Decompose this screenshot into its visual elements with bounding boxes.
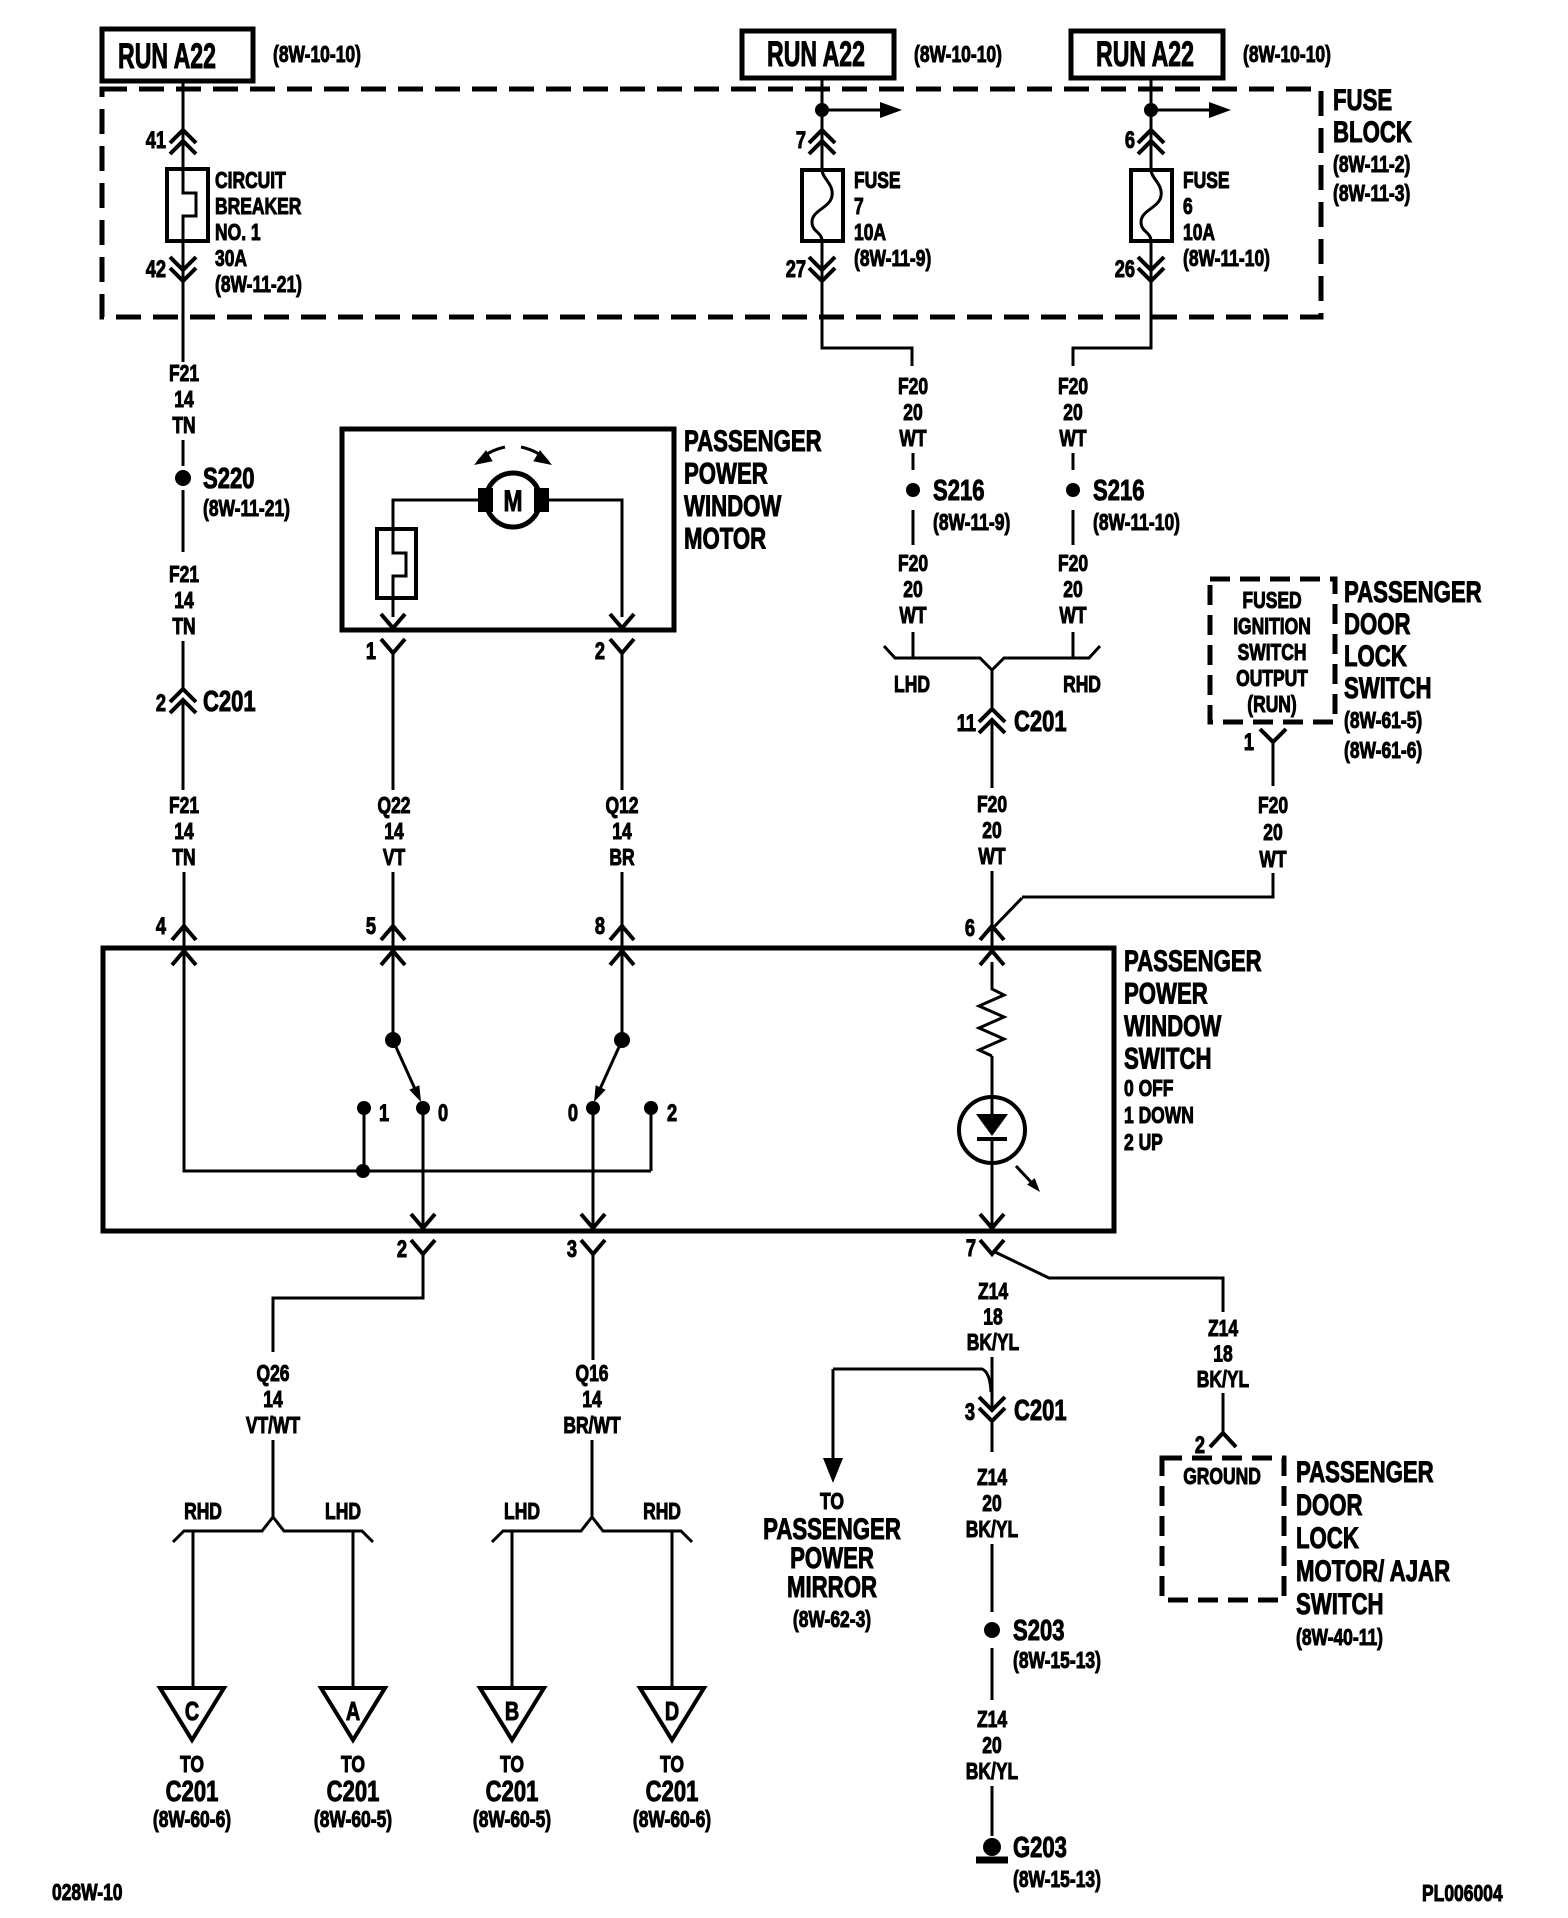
svg-text:7: 7 [796, 127, 806, 154]
fuse block label FUSE BLOCK (8W-11-2) (8W-11-3) [1333, 83, 1412, 207]
svg-text:14: 14 [174, 589, 194, 614]
svg-text:2: 2 [397, 1236, 407, 1263]
wire above ground box pin 2 [1222, 1393, 1225, 1432]
svg-text:20: 20 [903, 578, 922, 603]
svg-text:8: 8 [595, 913, 605, 940]
wire LHD branch to connector A [352, 1531, 355, 1688]
svg-text:27: 27 [786, 256, 806, 283]
svg-text:TN: TN [172, 414, 195, 439]
fuse 7 label [854, 169, 931, 272]
svg-text:BK/YL: BK/YL [966, 1518, 1018, 1543]
svg-text:3: 3 [567, 1236, 577, 1263]
TO label (C) [180, 1753, 204, 1778]
wire from fuse 6 down and left [1073, 241, 1151, 366]
wire label Q22 14 VT [377, 794, 410, 871]
connector triangle D [640, 1688, 704, 1740]
wire Q26 to split [272, 1440, 275, 1517]
wire RHD branch to connector C [192, 1531, 195, 1688]
svg-text:(8W-15-13): (8W-15-13) [1013, 1868, 1101, 1893]
svg-text:RHD: RHD [643, 1500, 681, 1525]
wire label F20 20 WT (fuse6 upper) [1058, 375, 1088, 452]
circuit breaker no. 1 [167, 169, 208, 241]
arrow to passenger power mirror [823, 1369, 843, 1483]
svg-text:BREAKER: BREAKER [215, 195, 302, 220]
svg-text:14: 14 [263, 1388, 283, 1413]
svg-text:11: 11 [957, 710, 976, 737]
svg-text:6: 6 [1125, 127, 1135, 154]
wire label F20 20 WT (fuse6 lower) [1058, 552, 1088, 629]
connector C201 pin 11 (chevrons) [979, 709, 1005, 733]
wire from fuse 7 down and right [822, 241, 912, 366]
svg-text:C201: C201 [1014, 1395, 1067, 1427]
svg-text:1: 1 [1244, 729, 1254, 756]
contact 1 (down) [357, 1101, 371, 1115]
svg-text:10A: 10A [1183, 221, 1215, 246]
svg-text:C201: C201 [203, 686, 256, 718]
svg-text:DOOR: DOOR [1296, 1488, 1363, 1522]
ground box pin 2 (inverted Y) [1210, 1433, 1236, 1447]
svg-text:F20: F20 [898, 375, 928, 400]
wire from RUN A22 #1 into fuse block [182, 81, 185, 169]
wire from door lock switch down/left to pin 6 [1022, 873, 1273, 897]
svg-text:MIRROR: MIRROR [787, 1570, 877, 1604]
svg-text:6: 6 [965, 915, 975, 942]
svg-text:D: D [665, 1696, 679, 1725]
wire label Q12 14 BR [605, 794, 638, 871]
svg-text:F20: F20 [1258, 794, 1288, 819]
ground G203 symbol [976, 1838, 1008, 1860]
svg-text:BK/YL: BK/YL [966, 1760, 1018, 1785]
svg-text:10A: 10A [854, 221, 886, 246]
wire F21 segment below C201 [182, 701, 185, 790]
passenger power window motor (box) [342, 429, 674, 630]
svg-text:2: 2 [595, 638, 605, 665]
svg-text:(8W-11-3): (8W-11-3) [1333, 182, 1410, 207]
svg-text:SWITCH: SWITCH [1344, 671, 1432, 705]
svg-text:(8W-61-6): (8W-61-6) [1344, 739, 1422, 764]
svg-text:(8W-11-21): (8W-11-21) [215, 273, 302, 298]
wire label Q16 14 BR/WT [563, 1362, 621, 1439]
svg-text:F21: F21 [169, 794, 199, 819]
svg-text:(8W-61-5): (8W-61-5) [1344, 709, 1422, 734]
wire contact 0 to pin 2 with arrowhead [411, 1108, 435, 1228]
svg-text:CIRCUIT: CIRCUIT [215, 169, 286, 194]
switch pin 2 (edge chevrons) [411, 1240, 435, 1254]
wire motor pin 2 down [621, 653, 624, 790]
svg-text:(8W-60-6): (8W-60-6) [633, 1808, 711, 1833]
svg-text:FUSE: FUSE [854, 169, 901, 194]
wire F21 segment [182, 440, 185, 466]
switch arm 1 (down switch) [385, 1032, 421, 1102]
TO label (A) [341, 1753, 365, 1778]
svg-text:F20: F20 [1058, 552, 1088, 577]
svg-text:Q22: Q22 [377, 794, 410, 819]
svg-text:028W-10: 028W-10 [52, 1881, 123, 1906]
svg-text:DOOR: DOOR [1344, 607, 1411, 641]
wire below circuit breaker [182, 241, 185, 362]
svg-text:30A: 30A [215, 247, 247, 272]
svg-text:MOTOR: MOTOR [684, 521, 766, 555]
node junction at fuse 7 feed [815, 103, 829, 117]
splice S220 [175, 470, 191, 486]
svg-text:LOCK: LOCK [1296, 1521, 1359, 1555]
svg-text:G203: G203 [1013, 1832, 1067, 1864]
svg-text:TO: TO [660, 1753, 684, 1778]
wire below S203 [991, 1648, 994, 1700]
svg-text:SWITCH: SWITCH [1296, 1587, 1384, 1621]
passenger power window motor title [684, 424, 822, 556]
svg-text:LHD: LHD [504, 1500, 540, 1525]
svg-text:MOTOR/ AJAR: MOTOR/ AJAR [1296, 1554, 1450, 1588]
svg-text:BLOCK: BLOCK [1333, 115, 1412, 149]
connector pin 42 (chevrons) [170, 257, 196, 281]
wire contact 1 to common rail [363, 1108, 366, 1171]
svg-text:PASSENGER: PASSENGER [1296, 1455, 1434, 1489]
svg-text:VT: VT [383, 846, 406, 871]
motor M1 (circle + terminals) [478, 473, 549, 527]
wire F21 into switch pin 4 [183, 872, 186, 948]
wire label F21 14 TN (lower) [169, 794, 199, 871]
svg-text:(8W-11-9): (8W-11-9) [933, 511, 1010, 536]
wire resistor to LED [991, 1056, 994, 1114]
splice S216 #1 [906, 483, 920, 497]
LHD/RHD merge bracket [884, 646, 1100, 670]
wire pin 4 to common rail [184, 948, 651, 1171]
wire above S203 [991, 1544, 994, 1612]
wire from RUN A22 #3 to fuse 6 [1150, 78, 1153, 170]
svg-text:(8W-11-9): (8W-11-9) [854, 247, 931, 272]
wire pin 3 down [592, 1254, 595, 1360]
svg-text:BR/WT: BR/WT [563, 1414, 621, 1439]
wire from motor left terminal [393, 500, 478, 529]
connector pin 6 (chevrons, fuse block) [1138, 130, 1164, 154]
switch pin 3 (edge chevrons) [581, 1240, 605, 1254]
switch pin 7 (edge chevrons) [980, 1240, 1004, 1254]
svg-text:TN: TN [172, 615, 195, 640]
fuse 6 label [1183, 169, 1270, 272]
svg-text:14: 14 [582, 1388, 602, 1413]
svg-text:4: 4 [156, 913, 166, 940]
svg-text:BR: BR [609, 846, 634, 871]
svg-text:RUN A22: RUN A22 [1096, 35, 1194, 74]
wire pin 2 down-left [273, 1254, 423, 1352]
svg-text:RHD: RHD [1063, 673, 1101, 698]
wire pin 5 to switch arm 1 pivot [392, 948, 395, 1036]
fuse block (dashed box) [102, 89, 1321, 317]
motor pin 1 (edge chevrons) [381, 614, 405, 653]
svg-text:WT: WT [978, 845, 1006, 870]
wire below C201 pin 11 [991, 721, 994, 788]
svg-text:LHD: LHD [894, 673, 930, 698]
svg-text:(8W-40-11): (8W-40-11) [1296, 1626, 1383, 1651]
wire from merge to C201 pin 11 [991, 670, 994, 710]
svg-text:S216: S216 [1093, 475, 1144, 507]
svg-text:20: 20 [903, 401, 922, 426]
RHD/LHD split bracket (left) [173, 1517, 373, 1542]
svg-text:GROUND: GROUND [1183, 1465, 1261, 1490]
svg-text:PASSENGER: PASSENGER [684, 424, 822, 458]
switch pin 8 (edge chevrons) [610, 926, 634, 965]
connector box RUN A22 #1 [102, 29, 253, 81]
arrow to other circuits (right) from fuse 6 node [1151, 102, 1231, 118]
arrow to other circuits (right) from fuse 7 node [822, 102, 902, 118]
svg-text:POWER: POWER [684, 456, 768, 490]
wire RHD branch to connector D [671, 1531, 674, 1688]
svg-text:20: 20 [982, 1492, 1001, 1517]
connector triangle B [480, 1688, 544, 1740]
passenger door lock switch (dashed box) [1210, 579, 1335, 722]
svg-text:Q16: Q16 [575, 1362, 608, 1387]
svg-text:0 OFF: 0 OFF [1124, 1077, 1173, 1102]
connector pin 7 (chevrons) [809, 130, 835, 154]
svg-text:3: 3 [965, 1399, 975, 1426]
passenger power window switch (box) [103, 948, 1114, 1231]
svg-text:20: 20 [1263, 821, 1282, 846]
svg-text:S220: S220 [203, 463, 254, 495]
wire segment into LHD branch [912, 632, 915, 658]
wire segment above S216 #1 [912, 453, 915, 470]
svg-text:WINDOW: WINDOW [684, 489, 781, 523]
svg-text:Z14: Z14 [978, 1280, 1009, 1305]
svg-text:14: 14 [612, 820, 632, 845]
svg-text:WT: WT [899, 427, 927, 452]
svg-text:C201: C201 [166, 1776, 219, 1808]
wire to ground G203 [991, 1786, 994, 1836]
svg-text:LHD: LHD [325, 1500, 361, 1525]
svg-text:(8W-60-6): (8W-60-6) [153, 1808, 231, 1833]
svg-text:F21: F21 [169, 563, 199, 588]
svg-text:(8W-11-21): (8W-11-21) [203, 497, 290, 522]
svg-text:2: 2 [1195, 1432, 1205, 1459]
svg-text:(8W-10-10): (8W-10-10) [914, 43, 1002, 68]
svg-text:FUSE: FUSE [1183, 169, 1230, 194]
svg-text:BK/YL: BK/YL [967, 1331, 1019, 1356]
junction dot on common rail [356, 1164, 370, 1178]
svg-text:C201: C201 [486, 1776, 539, 1808]
wire label F21 14 TN (upper) [169, 362, 199, 439]
svg-text:WINDOW: WINDOW [1124, 1009, 1221, 1043]
switch pin 6 (edge chevrons) [980, 926, 1004, 965]
to passenger power mirror label [763, 1512, 901, 1633]
svg-text:18: 18 [983, 1305, 1002, 1330]
svg-text:F20: F20 [1058, 375, 1088, 400]
svg-text:NO. 1: NO. 1 [215, 221, 261, 246]
svg-text:Q12: Q12 [605, 794, 638, 819]
svg-text:7: 7 [854, 195, 864, 220]
splice S203 [984, 1622, 1000, 1638]
svg-text:2: 2 [667, 1100, 677, 1127]
svg-text:42: 42 [146, 256, 166, 283]
wire from breaker to motor pin 1 [392, 598, 395, 617]
svg-text:S203: S203 [1013, 1615, 1064, 1647]
wire pin 8 to switch arm 2 pivot [621, 948, 624, 1036]
svg-text:PL006004: PL006004 [1422, 1882, 1503, 1907]
wire contact 2 to common rail [650, 1108, 653, 1171]
svg-text:2 UP: 2 UP [1124, 1131, 1163, 1156]
wire F21 segment above C201 [182, 641, 185, 690]
svg-text:(8W-10-10): (8W-10-10) [273, 43, 361, 68]
svg-text:(8W-11-2): (8W-11-2) [1333, 153, 1410, 178]
motor pin 2 (edge chevrons) [610, 614, 634, 653]
connector triangle C [160, 1688, 224, 1740]
wire segment below S216 #2 [1072, 510, 1075, 545]
svg-text:OUTPUT: OUTPUT [1236, 667, 1308, 692]
TO label (D) [660, 1753, 684, 1778]
switch pin 4 (edge chevrons) [172, 926, 196, 965]
connector pin 26 (chevrons) [1138, 257, 1164, 281]
wire label F20 20 WT (fuse7 lower) [898, 552, 928, 629]
switch arm 2 (up switch) [594, 1032, 630, 1102]
door lock switch pin 1 (Y connector) [1260, 729, 1286, 742]
contact 0 (arm 1 off) [416, 1101, 430, 1115]
switch pin 5 (edge chevrons) [381, 926, 405, 965]
wire contact 0 to pin 3 with arrowhead [581, 1108, 605, 1228]
svg-text:1: 1 [366, 638, 376, 665]
svg-text:14: 14 [174, 820, 194, 845]
svg-text:(8W-11-10): (8W-11-10) [1183, 247, 1270, 272]
svg-text:(8W-60-5): (8W-60-5) [314, 1808, 392, 1833]
wire segment below S216 #1 [912, 510, 915, 545]
connector box RUN A22 #2 [742, 31, 894, 78]
svg-text:RUN A22: RUN A22 [118, 37, 216, 76]
connector triangle A [321, 1688, 385, 1740]
wire from door lock switch joining pin 6 (diagonal) [992, 898, 1022, 929]
wire into switch pin 6 [991, 871, 994, 948]
circuit breaker no.1 label [215, 169, 302, 298]
svg-text:B: B [505, 1696, 519, 1725]
svg-text:F21: F21 [169, 362, 199, 387]
passenger door lock motor/ajar switch ground (dashed box) [1162, 1458, 1284, 1600]
svg-text:(8W-10-10): (8W-10-10) [1243, 43, 1331, 68]
svg-text:0: 0 [438, 1100, 448, 1127]
svg-text:SWITCH: SWITCH [1238, 641, 1307, 666]
svg-text:VT/WT: VT/WT [246, 1414, 301, 1439]
resistor (illumination) [979, 962, 1004, 1056]
wire label Z14 18 BK/YL (right) [1197, 1317, 1249, 1393]
svg-text:20: 20 [982, 819, 1001, 844]
svg-text:C201: C201 [646, 1776, 699, 1808]
svg-text:Z14: Z14 [1208, 1317, 1239, 1342]
svg-text:C201: C201 [1014, 706, 1067, 738]
wire Q12 into switch pin 8 [621, 872, 624, 948]
svg-text:TO: TO [500, 1753, 524, 1778]
wire LED to pin 7 with arrowhead [980, 1139, 1004, 1228]
svg-text:WT: WT [1059, 604, 1087, 629]
LED (illumination lamp) [959, 1097, 1025, 1163]
svg-text:BK/YL: BK/YL [1197, 1368, 1249, 1393]
wire label Z14 18 BK/YL (left) [967, 1280, 1019, 1356]
contact 0 (arm 2 off) [586, 1101, 600, 1115]
motor circuit breaker (internal) [377, 529, 416, 598]
wire label Z14 20 BK/YL (lower) [966, 1708, 1018, 1785]
wire label Z14 20 BK/YL (upper) [966, 1466, 1018, 1543]
svg-text:WT: WT [899, 604, 927, 629]
wire motor pin 1 down [392, 653, 395, 790]
svg-text:C201: C201 [327, 1776, 380, 1808]
svg-text:1: 1 [379, 1100, 389, 1127]
svg-text:SWITCH: SWITCH [1124, 1041, 1212, 1075]
connector box RUN A22 #3 [1071, 31, 1223, 78]
contact 2 (up) [644, 1101, 658, 1115]
wire below door lock pin 1 [1272, 742, 1275, 786]
svg-text:TO: TO [341, 1753, 365, 1778]
wire Q16 to split [591, 1440, 594, 1517]
TO label (mirror) [820, 1490, 844, 1515]
wire from motor right terminal [549, 500, 622, 617]
wire label F21 14 TN (middle) [169, 563, 199, 640]
node junction at fuse 6 feed [1144, 103, 1158, 117]
svg-text:F20: F20 [898, 552, 928, 577]
svg-text:6: 6 [1183, 195, 1193, 220]
fuse 6 [1131, 170, 1172, 241]
svg-text:FUSED: FUSED [1242, 589, 1301, 614]
svg-text:Z14: Z14 [977, 1466, 1008, 1491]
svg-text:5: 5 [366, 913, 376, 940]
svg-text:1 DOWN: 1 DOWN [1124, 1104, 1194, 1129]
svg-text:PASSENGER: PASSENGER [1124, 944, 1262, 978]
svg-text:TO: TO [180, 1753, 204, 1778]
wire segment into RHD branch [1072, 632, 1075, 658]
LHD/RHD split bracket (right) [492, 1517, 692, 1542]
svg-text:LOCK: LOCK [1344, 639, 1407, 673]
wire F21 segment below S220 [182, 490, 185, 552]
svg-text:FUSE: FUSE [1333, 83, 1392, 117]
svg-text:(RUN): (RUN) [1247, 693, 1296, 718]
svg-text:(8W-62-3): (8W-62-3) [793, 1608, 871, 1633]
svg-text:41: 41 [146, 127, 166, 154]
wire segment above C201 pin 3 [991, 1357, 994, 1411]
wire segment above S216 #2 [1072, 453, 1075, 470]
svg-text:18: 18 [1213, 1342, 1232, 1367]
svg-text:WT: WT [1259, 848, 1287, 873]
wire label F20 20 WT (fuse7 upper) [898, 375, 928, 452]
svg-text:Q26: Q26 [256, 1362, 289, 1387]
wire below C201 pin 3 [991, 1421, 994, 1452]
fused ignition switch output (run) label [1233, 589, 1311, 718]
fuse 7 [802, 170, 843, 241]
passenger door lock switch title [1344, 575, 1482, 764]
svg-text:14: 14 [174, 388, 194, 413]
svg-text:A: A [346, 1696, 361, 1725]
wire label F20 20 WT (door lock) [1258, 794, 1288, 873]
splice S216 #2 [1066, 483, 1080, 497]
branch to power mirror (horizontal + hook) [833, 1369, 991, 1392]
wire LHD branch to connector B [511, 1531, 514, 1688]
svg-text:PASSENGER: PASSENGER [1344, 575, 1482, 609]
svg-text:20: 20 [1063, 578, 1082, 603]
svg-text:0: 0 [568, 1100, 578, 1127]
svg-text:M: M [504, 484, 523, 518]
switch title PASSENGER POWER WINDOW SWITCH [1124, 944, 1262, 1156]
svg-text:TN: TN [172, 846, 195, 871]
wire pin 7 diagonal to right branch [995, 1252, 1223, 1312]
svg-text:RHD: RHD [184, 1500, 222, 1525]
wire label Q26 14 VT/WT [246, 1362, 301, 1439]
connector pin 27 (chevrons) [809, 257, 835, 281]
LED light arrow [1016, 1166, 1040, 1192]
svg-text:26: 26 [1115, 256, 1135, 283]
svg-text:(8W-11-10): (8W-11-10) [1093, 511, 1180, 536]
svg-text:F20: F20 [977, 793, 1007, 818]
svg-text:2: 2 [156, 690, 166, 717]
wire label F20 20 WT (above switch) [977, 793, 1007, 870]
svg-text:C: C [185, 1696, 200, 1725]
svg-text:7: 7 [966, 1235, 976, 1262]
svg-text:S216: S216 [933, 475, 984, 507]
passenger door lock motor/ajar switch title [1296, 1455, 1450, 1651]
svg-text:Z14: Z14 [977, 1708, 1008, 1733]
svg-text:20: 20 [982, 1734, 1001, 1759]
